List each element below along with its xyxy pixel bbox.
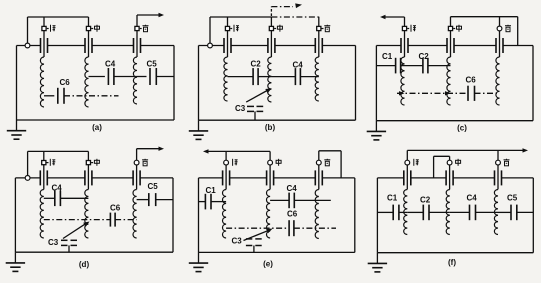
svg-text:(f): (f) bbox=[448, 258, 456, 267]
svg-text:C5: C5 bbox=[147, 60, 158, 69]
svg-text:C5: C5 bbox=[507, 194, 518, 203]
svg-text:C2: C2 bbox=[251, 60, 262, 69]
svg-text:C1: C1 bbox=[206, 186, 217, 195]
svg-text:C4: C4 bbox=[467, 194, 478, 203]
svg-text:(d): (d) bbox=[79, 260, 90, 269]
svg-text:C3: C3 bbox=[232, 237, 243, 246]
svg-text:C1: C1 bbox=[382, 52, 393, 61]
svg-text:C6: C6 bbox=[60, 78, 71, 87]
svg-text:C2: C2 bbox=[420, 196, 431, 205]
svg-text:(e): (e) bbox=[263, 260, 273, 269]
svg-text:(a): (a) bbox=[92, 123, 102, 132]
svg-text:C4: C4 bbox=[52, 184, 63, 193]
svg-text:C4: C4 bbox=[287, 184, 298, 193]
svg-text:(c): (c) bbox=[457, 124, 467, 133]
svg-text:C6: C6 bbox=[466, 76, 477, 85]
svg-text:C6: C6 bbox=[287, 210, 298, 219]
svg-text:(b): (b) bbox=[265, 123, 276, 132]
svg-text:C6: C6 bbox=[110, 204, 121, 213]
svg-text:C4: C4 bbox=[105, 60, 116, 69]
svg-text:C4: C4 bbox=[293, 61, 304, 70]
svg-text:C3: C3 bbox=[48, 238, 59, 247]
svg-text:C3: C3 bbox=[235, 104, 246, 113]
svg-text:C1: C1 bbox=[387, 194, 398, 203]
svg-text:C2: C2 bbox=[419, 52, 430, 61]
svg-text:C5: C5 bbox=[148, 182, 159, 191]
